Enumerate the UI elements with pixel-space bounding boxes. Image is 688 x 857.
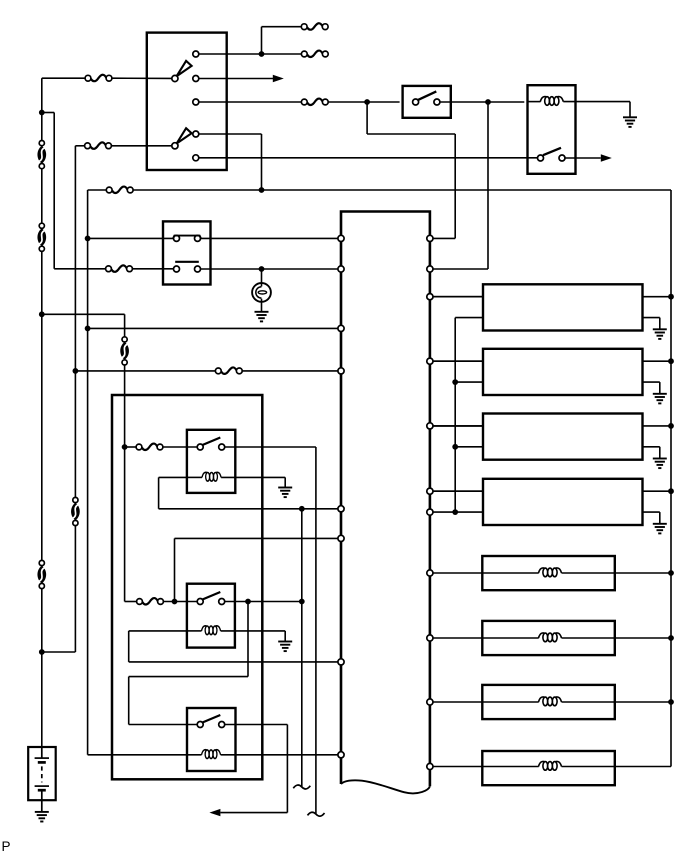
wire inner bus corner to fuse F7 — [125, 601, 137, 603]
node M3 pin2 branch — [452, 444, 458, 450]
node battery bus / feed branch — [39, 110, 45, 116]
contact SW1 pin ST1 — [193, 131, 199, 137]
lever SW1 blade 1 — [177, 61, 192, 76]
wire K3 coil loop horizontal — [129, 630, 187, 632]
wire J/B to S2 coil — [433, 637, 539, 639]
ground M4 — [653, 524, 667, 534]
node lamp branch — [259, 266, 265, 272]
wire K3 coil to ground — [221, 630, 286, 632]
wire key-sw top to junction block — [201, 237, 338, 239]
contact SW1 pin ST2 — [193, 155, 199, 161]
contact J/B right pin R573 — [427, 570, 433, 576]
node bus D / contact box feed — [85, 236, 91, 242]
wire battery bus to inner relay bus — [42, 313, 125, 315]
ground M3 — [653, 459, 667, 469]
node M4 pin2 branch — [452, 509, 458, 515]
wire K2 coil to ground — [221, 476, 285, 478]
node K3 output / down branch — [299, 599, 305, 605]
contact K1 switch left — [538, 155, 544, 161]
circuit breaker CB4 — [71, 497, 80, 525]
node battery bus / inner-bus branch — [39, 311, 45, 317]
contact J/B right pin R702 — [427, 699, 433, 705]
wire SW2 to relay K1 coil — [440, 101, 524, 103]
wire bus C to fuse F4 — [54, 268, 105, 270]
ground M2 — [653, 394, 667, 404]
wire inner relay bus down to relay K3 feed — [124, 365, 126, 602]
contact SW2 right — [434, 99, 440, 105]
bar key-sw NO bridge — [175, 261, 199, 263]
contact K1 switch right — [559, 155, 565, 161]
wire bus D to junction block pin 328 — [88, 327, 338, 329]
wire right feed bus vertical — [670, 190, 672, 767]
wire battery bus vertical top segment — [41, 78, 43, 140]
wire K2 output down to torn end — [315, 447, 317, 814]
lamp L1 key illumination — [252, 283, 271, 302]
wire bus B return to battery bus — [42, 651, 76, 653]
relay K3 box — [187, 584, 235, 648]
contact J/B right pin R297 — [427, 294, 433, 300]
contact J/B left pin L509 — [338, 506, 344, 512]
wire J/B pin491 to M4 pin1 — [433, 490, 483, 492]
wire J/B pin361 to M2 pin1 — [433, 360, 483, 362]
contact K3 switch left — [197, 599, 203, 605]
junction block J/B outline — [341, 212, 430, 787]
wire M1 pin1 to right bus — [643, 296, 672, 298]
arrow A2 (off-page right) — [601, 154, 612, 161]
wire J/B to M4 pin1 — [433, 490, 483, 492]
wire K1 ground drop — [629, 102, 631, 118]
wire to M1 pin2 — [455, 317, 483, 319]
node IG2 branch to junction block — [364, 99, 370, 105]
contact key-sw top right — [195, 235, 201, 241]
wire J/B pin426 to M3 pin1 — [433, 425, 483, 427]
wire bus C vertical — [53, 113, 55, 269]
contact K4 switch left — [197, 722, 203, 728]
wire K1 output — [565, 157, 601, 159]
wire fuse F2 to SW1 lever2 pivot — [111, 145, 171, 147]
fuse F2 — [85, 142, 112, 148]
node battery bus / return of bus B — [39, 649, 45, 655]
wire into junction block right pin 269 — [433, 268, 488, 270]
contact SW1 pin IG1 — [193, 76, 199, 82]
door key solenoid S1 box — [482, 556, 615, 590]
contact SW2 left — [413, 99, 419, 105]
node right bus / M4 — [668, 488, 674, 494]
coil relay K2 — [202, 472, 221, 481]
wire fuse F4 to door switch contact — [132, 268, 173, 270]
ground K1 coil — [623, 117, 637, 127]
wire fuse F6 to K2 switch — [163, 446, 197, 448]
blade K1 — [543, 148, 561, 155]
battery box — [28, 747, 56, 800]
wire K4 feed horizontal — [129, 676, 248, 678]
wire M4 pin2 to ground — [643, 511, 660, 513]
wire SW1 IG1 to connector arrow A1 — [199, 78, 274, 80]
wire IG2 branch horizontal — [367, 133, 455, 135]
contact J/B right pin R361 — [427, 358, 433, 364]
wire J/B to S4 coil — [433, 766, 539, 768]
wire branch to bus C — [42, 112, 54, 114]
wire J/B to S1 coil — [433, 572, 539, 574]
wire K3 ground drop — [284, 631, 286, 642]
wire J/B to M2 pin1 — [433, 360, 483, 362]
relay K2 box — [187, 430, 235, 493]
bar key-sw NC bridge — [173, 236, 201, 238]
wire IG2 branch down to connector J/B left pin — [454, 134, 456, 238]
node right bus / S2 — [668, 635, 674, 641]
wire J/B to M3 pin1 — [433, 425, 483, 427]
node coil feed / junction branch — [485, 99, 491, 105]
wire K2 coil left loop horizontal — [159, 476, 187, 478]
arrow A3 (off-page left) — [209, 809, 220, 816]
wire J/B to S3 coil — [433, 701, 539, 703]
wire feed line to right bus — [133, 189, 671, 191]
node right bus / S3 — [668, 699, 674, 705]
wire bus B vertical upper — [74, 146, 76, 498]
wire IG2 branch down — [366, 102, 368, 134]
contact key-sw top left — [174, 235, 180, 241]
contact J/B left pin L662 — [338, 659, 344, 665]
wire S2 coil to right bus — [562, 637, 672, 639]
wire K1 coil to ground — [563, 101, 630, 103]
wire K3 coil loop down — [128, 631, 130, 662]
wire junction block pin 538 to K3 feed — [175, 537, 338, 539]
wire M2 pin2 to ground — [643, 381, 660, 383]
wire J/B pin512 to M4 pin2 — [433, 511, 483, 513]
wire K2 coil loop to junction block pin 509 — [159, 508, 338, 510]
wire branch down to junction block pin 269 — [487, 102, 489, 269]
wire S3 coil to right bus — [562, 701, 672, 703]
node K3 input — [172, 599, 178, 605]
wire bus D to key-sw top — [88, 237, 174, 239]
wire K3 feed drop — [174, 538, 176, 601]
wire key-sw bottom to junction block — [201, 268, 338, 270]
wire inner relay bus top — [124, 314, 126, 337]
circuit breaker CB1 — [37, 141, 46, 169]
blade K2 — [202, 438, 220, 446]
wire to fuse FA — [262, 26, 302, 28]
contact J/B right pin R491 — [427, 488, 433, 494]
wire SW1 ST2 to relay K1 switch — [199, 157, 538, 159]
contact J/B right pin R766 — [427, 763, 433, 769]
coil relay K4 — [202, 750, 221, 759]
wire bus B vertical lower — [74, 525, 76, 652]
wire M3 pin2 to ground — [643, 446, 660, 448]
wire K3 output branch down — [247, 602, 249, 677]
pivot SW1 lever 1 — [172, 75, 178, 81]
wire SW1 ACC to fuse FB — [199, 53, 302, 55]
node right bus / M3 — [668, 423, 674, 429]
contact J/B left pin L269 — [338, 266, 344, 272]
wire M1 ground drop — [659, 318, 661, 330]
relay K4 box — [187, 708, 236, 771]
circuit breaker CB5 — [120, 337, 129, 365]
contact SW1 pin ACC — [193, 51, 199, 57]
contact J/B right pin R426 — [427, 423, 433, 429]
wire SW1 ST1 to branch — [199, 133, 262, 135]
door key solenoid S3 box — [482, 685, 615, 719]
node bus D / junction J328 feed — [85, 326, 91, 332]
fuse F1 — [85, 75, 112, 81]
coil relay K3 — [202, 626, 221, 635]
wire battery bus between breakers CB1-CB2 — [41, 169, 43, 226]
wire branch down to torn end — [301, 509, 303, 787]
node right bus / M2 — [668, 358, 674, 364]
contact J/B right pin R512 — [427, 509, 433, 515]
door lock motor M1 (front LH) box — [483, 284, 643, 330]
contact J/B right pin R238 — [427, 235, 433, 241]
contact K2 switch left — [197, 444, 203, 450]
contact J/B right pin R638 — [427, 635, 433, 641]
wire bus B corner to fuse F2 — [75, 145, 84, 147]
contact J/B left pin L328 — [338, 325, 344, 331]
ignition switch SW1 box — [147, 33, 227, 170]
wire K4 output down — [286, 725, 288, 813]
door lock motor M4 (rear RH) box — [483, 479, 643, 525]
junction block torn bottom edge — [341, 780, 430, 793]
fuse FC — [301, 99, 328, 105]
contact J/B right pin R269 — [427, 266, 433, 272]
wire ACC branch up — [261, 27, 263, 54]
wire fuse F7 to K3 switch — [163, 601, 197, 603]
contact J/B left pin L238 — [338, 235, 344, 241]
door lock motor M2 (front RH) box — [483, 349, 643, 395]
node K3 output branch — [245, 599, 251, 605]
node ST1 / feed line — [259, 187, 265, 193]
wire to M3 pin2 — [455, 446, 483, 448]
wire bus B to fuse F5 — [75, 370, 215, 372]
fuse F4 — [106, 265, 133, 271]
wire SW1 IG2 to fuse FC — [199, 101, 302, 103]
fuse F3 — [106, 187, 133, 193]
coil solenoid S2 — [539, 633, 562, 642]
arrow A1 (off-page right) — [273, 75, 284, 82]
ground K2 coil — [278, 488, 292, 498]
wire M1 pin2 to ground — [643, 317, 660, 319]
relay K1 box — [528, 85, 576, 174]
wire inner bus to fuse F6 — [125, 446, 137, 448]
ground lamp L1 — [255, 312, 269, 322]
wire J/B pin297 to M1 pin1 — [433, 296, 483, 298]
node M2 pin2 branch — [452, 379, 458, 385]
wire M4 pin1 to right bus — [643, 490, 672, 492]
wire K3 coil left stub — [187, 630, 202, 632]
wire battery bus breaker CB3 to battery — [41, 587, 43, 747]
wire K3 coil loop to junction block pin 662 — [129, 661, 338, 663]
contact J/B left pin L755 — [338, 752, 344, 758]
contact J/B left pin L538 — [338, 535, 344, 541]
contact J/B left pin L371 — [338, 368, 344, 374]
fuse FB — [301, 51, 328, 57]
circuit breaker CB3 — [37, 560, 46, 588]
wire K2 coil loop down — [158, 477, 160, 508]
fuse F6 — [136, 444, 163, 450]
circuit breaker CB2 — [37, 223, 46, 251]
wire M3 pin1 to right bus — [643, 425, 672, 427]
wire K2 output — [225, 446, 316, 448]
wire to lamp — [261, 269, 263, 286]
wire K1 box edge to coil — [528, 101, 541, 103]
wire into junction block right pin 238 — [433, 237, 455, 239]
node bus B / fuse F5 feed — [73, 368, 79, 374]
wire M2 ground drop — [659, 382, 661, 394]
coil solenoid S4 — [539, 761, 562, 770]
wire M3 ground drop — [659, 447, 661, 459]
contact K2 switch right — [219, 444, 225, 450]
ground battery — [35, 812, 49, 822]
node right bus / M1 — [668, 294, 674, 300]
contact K4 switch right — [219, 722, 225, 728]
wire fuse F5 to junction block pin 371 — [242, 370, 338, 372]
node pin509 / branch down — [299, 506, 305, 512]
torn wire end marker 1 — [293, 785, 310, 789]
wire pin2 distribution vertical — [454, 318, 456, 512]
pivot SW1 lever 2 — [172, 143, 178, 149]
door lock motor M3 (rear LH) box — [483, 414, 643, 460]
node inner bus / relay K2 feed — [122, 444, 128, 450]
fuse F5 — [215, 367, 242, 373]
contact K3 switch right — [219, 599, 225, 605]
wire K4 output — [225, 724, 288, 726]
blade SW2 — [418, 91, 437, 100]
fuse FA — [301, 23, 328, 29]
door key solenoid S4 box — [482, 751, 615, 785]
svg-text:P: P — [2, 839, 11, 852]
wire K3 output — [225, 601, 302, 603]
wire S4 coil to right bus — [562, 766, 672, 768]
wire fuse F1 to SW1 lever1 pivot — [112, 77, 171, 79]
wire K4 output to arrow A3 — [221, 812, 288, 814]
door key switch box — [163, 221, 211, 284]
coil solenoid S1 — [539, 568, 562, 577]
switch SW2 box — [403, 86, 451, 118]
door lock control unit box — [112, 395, 262, 779]
node right bus / S1 — [668, 570, 674, 576]
door key solenoid S2 box — [482, 621, 615, 655]
wire battery bus between breaker CB2 and CB3 — [41, 251, 43, 560]
wire K2 coil left stub — [187, 476, 202, 478]
wire K4 feed down — [128, 677, 130, 725]
wire J/B to M1 pin1 — [433, 296, 483, 298]
torn wire end marker 2 — [308, 812, 325, 816]
wire K2 ground drop — [284, 477, 286, 487]
fuse F7 — [137, 598, 164, 604]
contact key-sw bottom left — [174, 266, 180, 272]
ground M1 — [653, 329, 667, 339]
wire M2 pin1 to right bus — [643, 360, 672, 362]
coil relay K1 — [540, 97, 563, 106]
wire bus D top corner to fuse F3 — [88, 189, 107, 191]
ground K3 coil — [278, 642, 292, 652]
wire K4 feed to switch — [129, 724, 198, 726]
wire to M2 pin2 — [455, 381, 483, 383]
wire M4 ground drop — [659, 512, 661, 524]
blade K4 — [202, 715, 220, 723]
wire bus D to K4 coil — [88, 754, 202, 756]
lever SW1 blade 2 — [177, 128, 192, 143]
wire K4 coil to junction block pin 755 — [221, 754, 338, 756]
blade K3 — [202, 592, 220, 600]
wire ST1 down to feed line — [261, 134, 263, 190]
wire lamp to ground — [261, 299, 263, 312]
battery cell symbol — [35, 747, 49, 812]
wire S1 coil to right bus — [562, 572, 672, 574]
wire fuse FC to switch SW2 — [328, 101, 399, 103]
wire bus D vertical — [87, 190, 89, 755]
wire battery bus corner to fuse F1 — [42, 77, 85, 79]
contact SW1 pin IG2 — [193, 99, 199, 105]
coil solenoid S3 — [539, 697, 562, 706]
node ACC branch — [259, 51, 265, 57]
contact key-sw bottom right — [195, 266, 201, 272]
